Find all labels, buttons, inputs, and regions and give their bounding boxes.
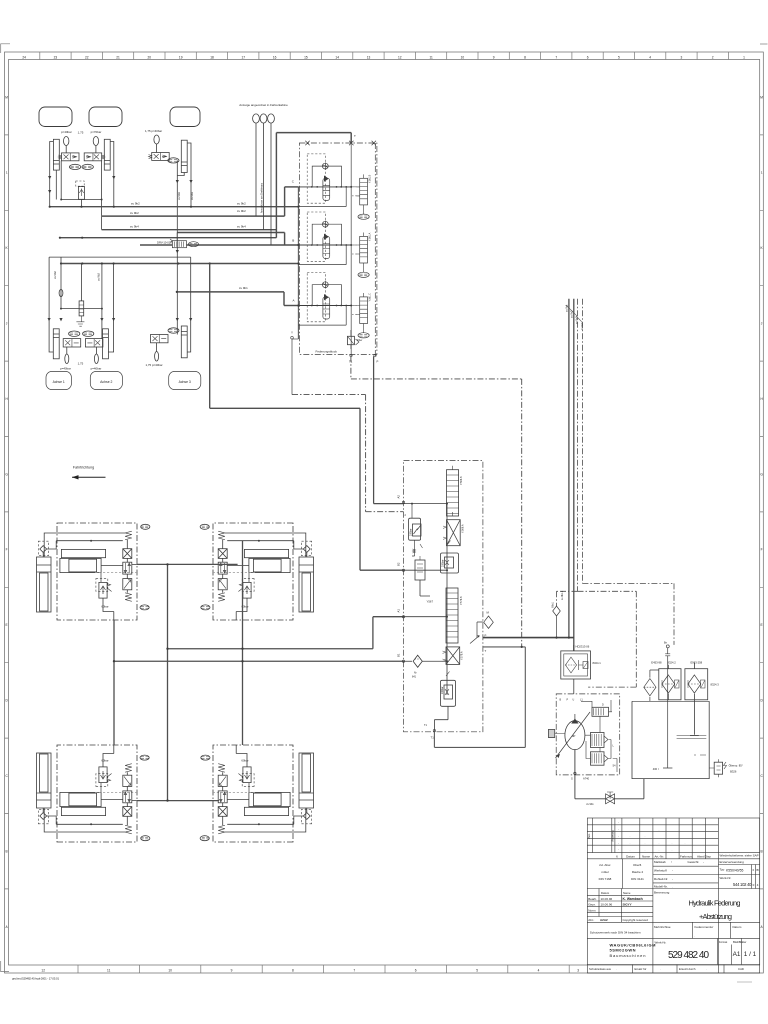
svg-text:Abmt/Disp: Abmt/Disp (697, 855, 711, 859)
tag oval 9b4 (168, 158, 179, 163)
svg-text:D: D (5, 699, 8, 703)
svg-text:16: 16 (273, 55, 277, 59)
X valve Y.578.A (446, 647, 460, 665)
svg-text:23: 23 (54, 55, 58, 59)
svg-text:1 / 1: 1 / 1 (744, 951, 757, 958)
svg-text:B: B (6, 849, 8, 853)
cluster C (298, 154, 347, 207)
cylinder axle3 (181, 140, 187, 172)
svg-text:Datum: Datum (626, 855, 635, 859)
svg-text:P: P (567, 699, 569, 702)
svg-text:.: . (630, 842, 631, 845)
svg-text:F: F (761, 548, 763, 552)
svg-text:S4: S4 (613, 765, 617, 768)
svg-text:.: . (694, 935, 695, 938)
svg-text:.: . (659, 842, 660, 845)
svg-text:5: 5 (476, 968, 478, 972)
svg-text:8: 8 (524, 55, 526, 59)
mid valve 2 (591, 752, 605, 765)
svg-text:Abt.:: Abt.: (588, 918, 594, 922)
svg-text:.: . (630, 835, 631, 838)
svg-text:L: L (6, 171, 8, 175)
svg-text:DIN 7168: DIN 7168 (599, 877, 612, 881)
svg-text:M: M (760, 95, 763, 99)
T1 P bottom ports (350, 354, 376, 356)
svg-text:4: 4 (757, 883, 759, 887)
svg-text:G: G (760, 472, 763, 476)
svg-text:J: J (6, 322, 8, 326)
svg-text:Art.-Nr.: Art.-Nr. (655, 855, 665, 859)
svg-text:22: 22 (85, 55, 89, 59)
svg-text:Federomentur: Federomentur (695, 925, 714, 929)
svg-text:A2A2: A2A2 (600, 918, 608, 922)
svg-text:T1: T1 (431, 736, 435, 740)
svg-text:zu 9b4: zu 9b4 (130, 225, 139, 229)
svg-text:Fahrtrichtung: Fahrtrichtung (73, 466, 94, 470)
svg-text:18: 18 (210, 55, 214, 59)
svg-text:E: E (6, 623, 8, 627)
internal links (585, 716, 611, 758)
port lines into block (298, 187, 351, 306)
svg-text:Ersatz für: Ersatz für (635, 967, 647, 971)
drain line (615, 779, 644, 799)
vertical mid-left (167, 564, 169, 800)
P rail dash-dot (374, 143, 376, 356)
svg-text:HD2313-06: HD2313-06 (576, 645, 590, 649)
svg-text:CAD: CAD (738, 967, 744, 971)
internal B2 line (404, 569, 448, 571)
svg-text:p=70bar: p=70bar (91, 130, 102, 134)
tag ovals m12 (69, 331, 80, 336)
svg-text:Federungsblock: Federungsblock (316, 350, 338, 354)
absblock labels (397, 476, 490, 739)
svg-text:.: . (645, 835, 646, 838)
svg-text:.: . (672, 849, 673, 852)
svg-text:17: 17 (242, 55, 246, 59)
svg-text:6: 6 (587, 55, 589, 59)
cylinder axle1 (53, 139, 59, 170)
svg-text:A2: A2 (397, 495, 401, 499)
svg-text:Y.578.A: Y.578.A (461, 651, 464, 660)
svg-text:60bar: 60bar (101, 604, 108, 608)
svg-text:Datum: Datum (733, 925, 742, 929)
line B1 feed (114, 660, 404, 662)
svg-text:K. Wambach: K. Wambach (623, 897, 643, 901)
svg-text:E: E (761, 623, 763, 627)
svg-text:Name: Name (642, 855, 650, 859)
svg-text:Be: Be (664, 642, 668, 645)
svg-text:-: - (618, 822, 619, 825)
wire cyl3 right (187, 143, 191, 207)
svg-text:Baumaschinen: Baumaschinen (610, 953, 646, 958)
signature rows (587, 889, 653, 923)
svg-text:200bar: 200bar (442, 559, 445, 567)
title block text (587, 822, 759, 972)
accumulator axle2 (93, 137, 98, 146)
outer wire left (49, 257, 53, 352)
valve axle3m (151, 335, 169, 343)
breather line into tank (663, 656, 672, 768)
svg-text:DRV-10-01X: DRV-10-01X (157, 240, 172, 244)
Y return dash-dot (292, 395, 404, 512)
svg-text:Bl: Bl (756, 868, 759, 872)
svg-text:K550/40/55: K550/40/55 (726, 869, 743, 873)
upper thin line (49, 256, 191, 258)
svg-text:Format: Format (719, 940, 727, 944)
cylinder axle2m (103, 329, 109, 359)
junction dots (49, 206, 211, 293)
svg-text:9P: 9P (572, 734, 576, 738)
svg-text:.: . (659, 828, 660, 831)
svg-text:T: T (485, 649, 487, 653)
svg-text:Farbmust: Farbmust (680, 855, 693, 859)
L4b DRV top line (177, 233, 285, 246)
svg-text:T1: T1 (424, 724, 428, 727)
svg-text:4: 4 (538, 968, 540, 972)
A line (284, 305, 298, 307)
svg-text:Nr: Nr (414, 672, 417, 675)
P exit arrow (470, 636, 480, 644)
svg-text:Filter: Filter (357, 339, 363, 342)
svg-text:H: H (5, 397, 8, 401)
svg-text:Werk-Nr.: Werk-Nr. (655, 941, 667, 945)
svg-text:6: 6 (616, 855, 618, 859)
svg-text:zu 9s2: zu 9s2 (571, 310, 574, 318)
L1 zu 9b2 (50, 206, 299, 208)
cylinder axle3m (181, 326, 187, 358)
solenoid A (352, 293, 369, 338)
top valve (592, 707, 609, 716)
svg-text:11: 11 (429, 55, 433, 59)
svg-text:E963-258: E963-258 (691, 661, 703, 665)
svg-text:60bar: 60bar (241, 759, 248, 763)
cylinder axle2 (104, 139, 110, 170)
T rail (350, 143, 352, 356)
port circles left (402, 501, 404, 662)
tag oval 9b3b (82, 164, 93, 169)
suspension block pressure labels (101, 604, 248, 762)
mid valve 1 (591, 733, 605, 748)
svg-text:0: 0 (753, 883, 755, 887)
svg-text:zu 9b1: zu 9b1 (239, 286, 248, 290)
svg-text:zu 9s3: zu 9s3 (576, 316, 579, 324)
tag oval 9b3a (69, 164, 80, 169)
svg-text:400 l: 400 l (653, 767, 659, 771)
shaft (548, 730, 554, 738)
dash-dot box (556, 694, 620, 775)
tire axle 1 (39, 107, 72, 127)
svg-text:mittel: mittel (601, 870, 609, 874)
solenoid C (352, 174, 369, 219)
svg-text:20: 20 (148, 55, 152, 59)
gauge lines (256, 123, 271, 245)
svg-text:J: J (761, 322, 763, 326)
svg-text:200bar: 200bar (441, 686, 444, 694)
svg-text:SIGYY: SIGYY (623, 903, 632, 907)
achse label boxes (46, 371, 71, 389)
svg-text:3: 3 (681, 55, 683, 59)
svg-text:F: F (6, 548, 8, 552)
svg-text:8: 8 (292, 968, 294, 972)
internal A1 line (404, 616, 448, 618)
svg-text:841: 841 (412, 676, 417, 679)
svg-text:10: 10 (168, 968, 172, 972)
solenoid feed dashes (346, 187, 356, 306)
accumulator m2 (94, 354, 98, 364)
svg-text:Anzeige angeordnet in Fahrerka: Anzeige angeordnet in Fahrerkabine (239, 103, 288, 107)
svg-text:Ersterverwendung: Ersterverwendung (720, 860, 745, 864)
bottom cells (587, 938, 759, 964)
svg-text:Hydraulik Federung: Hydraulik Federung (689, 899, 741, 908)
svg-text:Norm: Norm (588, 908, 596, 912)
wire cyl1 bottom (55, 170, 57, 199)
svg-text:Typ: Typ (720, 868, 725, 872)
svg-text:Datum: Datum (601, 891, 610, 895)
svg-text:5: 5 (618, 55, 620, 59)
svg-text:p=40bar: p=40bar (60, 367, 71, 371)
M port (477, 616, 493, 638)
svg-text:Werkstoff: Werkstoff (654, 869, 667, 873)
svg-text:Änderung: Änderung (611, 830, 615, 842)
svg-text:.: . (659, 849, 660, 852)
svg-text:zu 9b3: zu 9b3 (177, 192, 181, 200)
B1 check diamond (413, 655, 422, 667)
svg-text:U: U (573, 699, 575, 702)
revision table rows (587, 825, 759, 853)
B2 feed line (210, 264, 404, 571)
svg-text:zu 9b2: zu 9b2 (97, 273, 101, 281)
block front-right 9b7 (200, 523, 313, 620)
cluster A (298, 273, 347, 326)
temp switch (714, 762, 722, 774)
svg-text:zu 9b1.2: zu 9b1.2 (561, 590, 564, 600)
svg-text:S: S (571, 777, 573, 781)
svg-text:Maßstab: Maßstab (654, 860, 666, 864)
svg-text:Y567: Y567 (427, 600, 434, 604)
svg-text:-: - (703, 860, 704, 864)
left relief cluster Y567 (409, 518, 421, 540)
svg-text:19: 19 (179, 55, 183, 59)
svg-text:12: 12 (41, 968, 45, 972)
svg-text:Wiederholteilverw. siehe SAP: Wiederholteilverw. siehe SAP (720, 854, 759, 858)
wire axle1 left (50, 142, 54, 207)
svg-text:60bar: 60bar (101, 759, 108, 763)
wire valve2 down (101, 161, 103, 230)
svg-text:.: . (645, 842, 646, 845)
svg-text:14: 14 (335, 55, 339, 59)
bottom filter unit (347, 336, 354, 344)
svg-text:Werk-Nr.: Werk-Nr. (720, 876, 732, 880)
svg-text:200bar: 200bar (410, 528, 413, 536)
L2 (102, 187, 285, 216)
orifice wire (60, 257, 62, 309)
junction dots (113, 563, 244, 802)
tank box (632, 701, 709, 778)
tire axle 3 (170, 107, 200, 127)
return filter box 2 (685, 669, 708, 700)
block front-left 9b8 (37, 523, 150, 620)
svg-text:10.06.96: 10.06.96 (601, 897, 613, 901)
svg-text:5SM02GWN: 5SM02GWN (610, 948, 636, 953)
svg-text:-: - (618, 842, 619, 845)
svg-text:1,75: 1,75 (78, 362, 84, 366)
svg-text:10: 10 (461, 55, 465, 59)
svg-text:-: - (618, 849, 619, 852)
svg-text:zu 9b2: zu 9b2 (130, 211, 139, 215)
block rear-left 9b6 (37, 745, 150, 842)
revision table columns (592, 818, 718, 973)
accumulator axle3 (154, 135, 159, 144)
svg-text:Zust.: Zust. (587, 833, 591, 839)
svg-text:ged.tmd.529482.40.hydr.0001 -: ged.tmd.529482.40.hydr.0001 - 17.05.01 (12, 977, 59, 981)
svg-text:Achse 3: Achse 3 (179, 380, 191, 384)
svg-text:15: 15 (304, 55, 308, 59)
front connector (137, 563, 238, 565)
svg-text:E453-98: E453-98 (651, 661, 662, 665)
relief line axle12 (61, 199, 101, 201)
svg-text:529 482 40: 529 482 40 (668, 950, 709, 961)
svg-text:Achse 2: Achse 2 (100, 380, 112, 384)
svg-text:11: 11 (107, 968, 111, 972)
svg-text:13: 13 (367, 55, 371, 59)
mirror axle labels (53, 271, 191, 384)
gauge circle 2 (260, 114, 267, 123)
svg-text:Modell-Nr.: Modell-Nr. (654, 885, 668, 889)
svg-text:zu 9s4: zu 9s4 (581, 322, 584, 330)
svg-text:Oberfl.: Oberfl. (633, 863, 642, 867)
svg-text:544 102 40: 544 102 40 (733, 882, 752, 887)
svg-text:zu 9b4: zu 9b4 (237, 225, 246, 229)
solenoid Y.566.B (447, 470, 459, 516)
svg-text:Blatt/Blätter: Blatt/Blätter (733, 940, 747, 944)
svg-text:B1: B1 (397, 653, 401, 657)
svg-text:zu 9b2: zu 9b2 (237, 202, 246, 206)
svg-text:8324.1: 8324.1 (593, 661, 602, 665)
suction strainer (644, 679, 656, 696)
svg-text:L: L (761, 171, 763, 175)
svg-text:zu 9b3: zu 9b3 (190, 192, 194, 200)
svg-text:-: - (618, 835, 619, 838)
ladder Y.578.B (446, 588, 458, 643)
svg-text:-: - (618, 828, 619, 831)
left rail (297, 187, 299, 339)
svg-text:Y.578.B: Y.578.B (460, 596, 463, 605)
svg-text:0: 0 (753, 868, 755, 872)
C line (285, 186, 299, 188)
svg-text:A740: A740 (583, 777, 590, 781)
svg-text:.: . (630, 849, 631, 852)
DRV-10-01X valve on B line (170, 233, 199, 248)
svg-text:Y: Y (291, 331, 293, 335)
svg-text:-: - (672, 869, 673, 873)
L5 B line with DRV valve (140, 244, 298, 246)
svg-text:G: G (5, 472, 8, 476)
svg-text:6: 6 (415, 968, 417, 972)
pump circle (565, 721, 585, 750)
svg-text:zul. Abw.: zul. Abw. (599, 863, 611, 867)
port X marks on top edge (305, 141, 376, 145)
svg-text:1,75 p=40bar: 1,75 p=40bar (145, 363, 162, 367)
svg-text:1,75: 1,75 (78, 130, 84, 134)
top zone ticks (40, 52, 729, 60)
svg-text:12: 12 (398, 55, 402, 59)
svg-text:zu 9b1: zu 9b1 (586, 803, 594, 806)
cluster B (298, 212, 347, 265)
svg-text:8324.3: 8324.3 (711, 683, 720, 687)
P to A2 feed (374, 356, 404, 503)
svg-text:Y.561.B: Y.561.B (369, 174, 372, 183)
dash-dot boundary (404, 461, 483, 732)
svg-text:Mehrtrichtse: Mehrtrichtse (654, 925, 671, 929)
accumulator m3 (155, 352, 159, 362)
svg-text:21: 21 (116, 55, 120, 59)
svg-text:A1: A1 (733, 951, 741, 958)
svg-text:B326: B326 (730, 770, 737, 774)
M6 branch (556, 591, 558, 606)
svg-text:p=40bar: p=40bar (61, 130, 72, 134)
vertical mid-right (242, 541, 244, 745)
arrows (48, 318, 116, 321)
svg-text:Gewicht:: Gewicht: (688, 860, 700, 864)
accumulator axle1 (63, 137, 68, 146)
svg-text:K: K (6, 246, 9, 250)
svg-text:zu 9b2: zu 9b2 (53, 271, 57, 279)
bottom relief (441, 680, 456, 706)
mirror relief valve (80, 264, 82, 301)
L4 tank return (60, 133, 351, 238)
svg-text:Y.561.A: Y.561.A (369, 232, 372, 241)
mid relief Y.578.B (441, 553, 459, 573)
svg-text:9: 9 (493, 55, 495, 59)
svg-text:Gepr.: Gepr. (588, 903, 596, 907)
svg-text:B2: B2 (397, 562, 401, 566)
vertical front-left down (113, 620, 115, 745)
svg-text:D: D (602, 704, 604, 707)
svg-text:10.06.96: 10.06.96 (601, 903, 613, 907)
svg-text:1,75 p=40bar: 1,75 p=40bar (145, 129, 162, 133)
wire to valve2m (101, 264, 103, 339)
svg-text:7: 7 (353, 968, 355, 972)
center relief valve (76, 181, 84, 186)
svg-text:B: B (292, 239, 294, 243)
bus labels (130, 202, 248, 291)
main cell dividers (587, 859, 759, 889)
federungsblock labels (291, 134, 379, 363)
svg-text:*: * (671, 861, 672, 865)
svg-text:A: A (6, 925, 9, 929)
outer wire axle3m (187, 257, 191, 352)
svg-text:.: . (706, 967, 707, 971)
L6 (61, 263, 298, 265)
outer wire right (108, 264, 113, 353)
svg-text:p=40bar: p=40bar (91, 367, 102, 371)
svg-text:Ersetzt durch: Ersetzt durch (679, 967, 696, 971)
valve axle1 (62, 153, 80, 161)
corner crop marks (1, 44, 10, 53)
svg-text:M: M (5, 95, 8, 99)
valve axle2m (85, 339, 103, 347)
oil level lines (677, 736, 707, 756)
svg-text:9: 9 (231, 968, 233, 972)
valve axle3 (152, 153, 170, 161)
svg-text:C: C (292, 180, 295, 184)
svg-text:L: L (613, 745, 615, 748)
svg-text:A1: A1 (397, 609, 401, 613)
Y port exit (292, 339, 298, 395)
wire valve3 down to L7 (176, 160, 178, 292)
relief line mirror (61, 308, 102, 310)
valve axle1m (63, 339, 80, 347)
